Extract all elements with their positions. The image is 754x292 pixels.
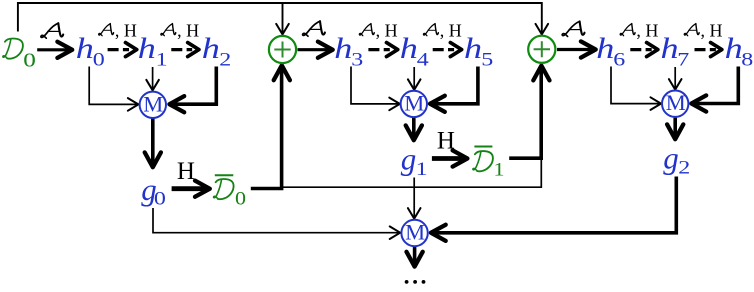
svg-text:, H: , H <box>440 20 462 40</box>
svg-text:, H: , H <box>177 20 199 40</box>
wire: h8 thick down-left into M3 <box>691 67 738 112</box>
svg-text:2: 2 <box>678 157 690 178</box>
svg-text:7: 7 <box>677 49 689 70</box>
label A,H 2 <box>161 20 199 40</box>
wire: arrowhead into sum S2 <box>536 24 549 35</box>
wire: M3 thick output down to g2 <box>667 118 683 140</box>
merge node M3 <box>662 90 688 117</box>
node h8 <box>725 33 754 69</box>
svg-text:M: M <box>405 220 425 245</box>
svg-text:3: 3 <box>351 49 363 70</box>
svg-text:h: h <box>464 33 482 65</box>
wire: h5 thick down-left into M2 <box>430 67 478 112</box>
wire: M1 thick output down to g0 <box>145 119 161 168</box>
arrow A1: D0 to h0 <box>37 42 72 58</box>
svg-text:M: M <box>666 90 686 115</box>
label A,H 4 <box>423 20 461 40</box>
svg-text:0: 0 <box>23 49 36 71</box>
svg-text:, H: , H <box>115 20 137 40</box>
wire: h6 down-right into M3 <box>611 67 661 110</box>
svg-text:h: h <box>202 33 220 65</box>
wire: g0 down-right into M4 <box>153 208 400 239</box>
svg-text:1: 1 <box>156 49 168 70</box>
dashed arrow h4 to h5 <box>433 43 462 57</box>
ellipsis dots <box>405 280 426 284</box>
dashed arrow h0 to h1 <box>108 43 137 57</box>
wire: h3 down-right into M2 <box>351 67 400 111</box>
svg-text:g: g <box>663 141 679 176</box>
node D1bar (green, overline) <box>473 147 505 181</box>
svg-text:0: 0 <box>154 188 166 209</box>
merge node M2 <box>401 90 427 117</box>
svg-text:h: h <box>725 33 743 65</box>
node h1 <box>138 33 168 69</box>
arrow H2: g1 to D1bar <box>432 150 468 166</box>
svg-text:, H: , H <box>636 20 658 40</box>
node g0 <box>141 172 166 209</box>
wire: h0 down-right into M1 <box>89 67 138 111</box>
wire: h4 down into M2 <box>408 67 421 90</box>
wire: h1 down into M1 <box>146 67 159 90</box>
wire: branch down into sum S1 <box>276 3 289 34</box>
node g2 <box>663 141 690 178</box>
svg-text:5: 5 <box>481 49 493 70</box>
node h6 <box>596 33 625 69</box>
arrow A3: sum S2 to h6 <box>557 41 596 57</box>
arrow A2: sum S1 to h3 <box>298 42 333 58</box>
svg-text:h: h <box>400 33 418 65</box>
dashed arrow h7 to h8 <box>695 43 722 57</box>
node D0bar (green, overline) <box>214 175 246 209</box>
svg-text:h: h <box>76 33 94 65</box>
svg-text:1: 1 <box>494 160 505 180</box>
dashed arrow h6 to h7 <box>630 43 658 57</box>
wire: g1 down into M4 <box>408 178 421 219</box>
svg-text:8: 8 <box>741 49 753 70</box>
svg-text:, H: , H <box>701 20 723 40</box>
svg-text:H: H <box>177 158 195 185</box>
svg-text:M: M <box>404 90 424 115</box>
svg-text:H: H <box>437 128 455 155</box>
node h4 <box>400 33 429 69</box>
wire: D0bar thick out right then up into sum S1 <box>251 65 290 188</box>
svg-text:2: 2 <box>219 49 231 70</box>
svg-text:h: h <box>661 33 679 65</box>
label H2 <box>437 128 455 155</box>
node D0 label (green script D with subscript 0) <box>3 39 36 71</box>
svg-text:g: g <box>401 141 417 176</box>
wire: D1bar thick out right then up into sum S2 <box>509 66 549 159</box>
wire: h2 thick down-left into M1 <box>169 67 216 113</box>
label A over arrow A3 <box>562 21 584 36</box>
svg-text:0: 0 <box>235 189 246 209</box>
sum node S1 (green +) <box>269 36 296 63</box>
label H1 <box>177 158 195 185</box>
svg-text:6: 6 <box>613 49 625 70</box>
wire: top feedback elbow from D0 up and across to sum nodes <box>18 3 542 33</box>
wire: h7 down into M3 <box>669 67 682 90</box>
svg-text:M: M <box>143 91 163 116</box>
dashed arrow h3 to h4 <box>368 43 397 57</box>
label A (script) over arrow A1 <box>41 23 63 38</box>
node h2 <box>202 33 232 69</box>
svg-text:4: 4 <box>417 49 429 70</box>
wire: M2 thick output down to g1 <box>406 118 422 140</box>
dashed arrow h1 to h2 <box>171 43 199 57</box>
arrow H1: g0 to D0bar <box>172 181 210 197</box>
svg-text:h: h <box>334 33 352 65</box>
label A,H 3 <box>359 20 397 40</box>
wire: thin cross wire from D0bar junction to D1bar junction <box>282 159 541 187</box>
merge node M4 <box>401 220 427 247</box>
merge node M1 <box>140 91 166 118</box>
label A,H 5 <box>620 20 658 40</box>
sum node S2 (green +) <box>528 36 555 63</box>
node h0 <box>76 33 105 69</box>
node h7 <box>661 33 690 69</box>
label A,H 6 <box>684 20 722 40</box>
node g1 <box>401 141 428 179</box>
svg-text:1: 1 <box>416 158 428 179</box>
label A,H 1 <box>99 20 137 40</box>
svg-text:0: 0 <box>93 49 105 70</box>
svg-text:h: h <box>138 33 156 65</box>
svg-text:, H: , H <box>376 20 398 40</box>
wire: M4 thick output down to dots <box>407 247 423 267</box>
node h3 <box>334 33 363 69</box>
label A over arrow A2 <box>303 21 325 36</box>
wire: g2 thick down-left into M4 <box>431 177 676 241</box>
node h5 <box>464 33 493 69</box>
svg-text:h: h <box>596 33 614 65</box>
